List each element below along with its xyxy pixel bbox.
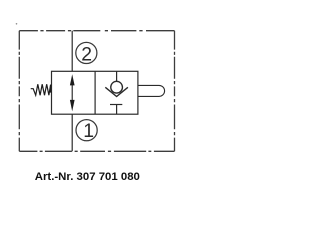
boundary top edge xyxy=(19,30,174,32)
blanked pilot port (rounded plug, right) xyxy=(138,85,165,96)
poppet travel arrow (double-headed, left chamber) xyxy=(70,74,75,111)
port label 1 (circle) xyxy=(76,120,97,141)
check valve seat (V) xyxy=(105,87,128,96)
wire: seat bar to body bottom xyxy=(116,105,118,115)
boundary left edge xyxy=(18,31,20,152)
svg-text:2: 2 xyxy=(81,43,92,65)
spring (left side) xyxy=(31,84,52,95)
check valve seat bar xyxy=(110,104,122,106)
component boundary (dash-dot cartridge envelope) xyxy=(19,31,174,152)
check valve poppet ball xyxy=(111,81,123,93)
article number caption xyxy=(0,171,182,183)
wire: port 1 line (bottom) xyxy=(71,114,73,151)
boundary right edge xyxy=(174,31,176,152)
check valve (right chamber): stem to seat xyxy=(116,71,118,81)
boundary bottom edge xyxy=(19,150,174,152)
port label 2 (circle) xyxy=(76,42,97,63)
svg-text:1: 1 xyxy=(83,120,94,142)
speck xyxy=(16,23,18,25)
wire: port 2 line (top) xyxy=(71,31,73,72)
valve body (two-chamber cartridge) xyxy=(52,71,138,114)
